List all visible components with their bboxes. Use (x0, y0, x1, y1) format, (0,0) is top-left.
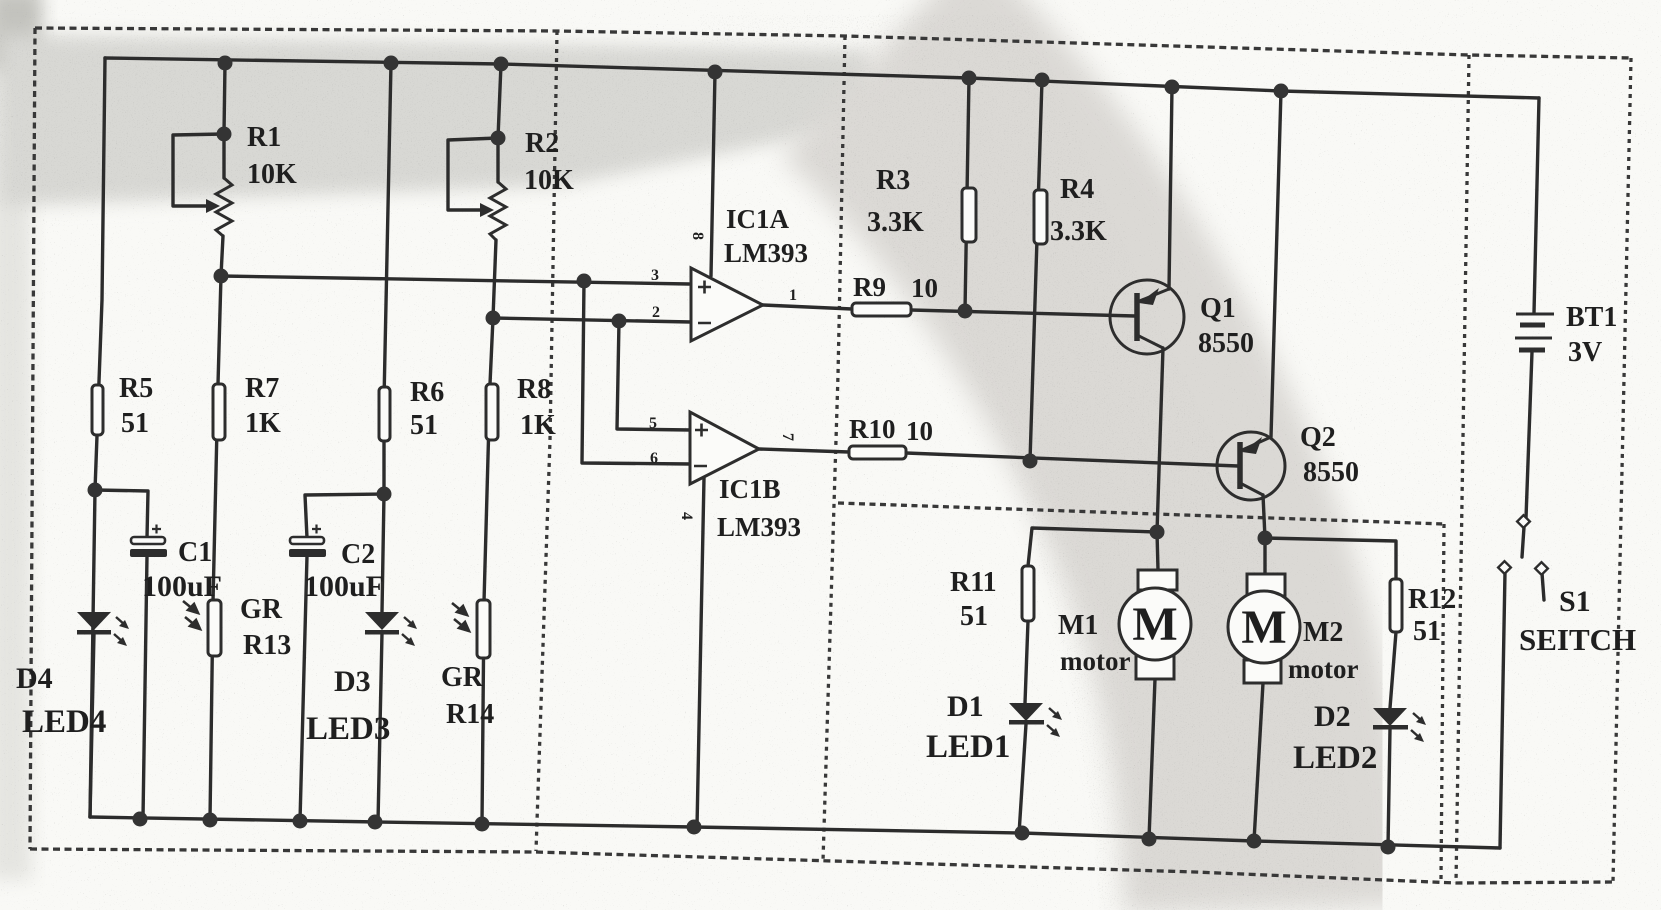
wire: R2 pot body top lead (496, 138, 499, 182)
wire: battery top lead (1534, 98, 1539, 313)
wire: R12 to D2 (1390, 632, 1396, 708)
wire: M1 top lead (1157, 532, 1158, 570)
outer border right (1613, 58, 1631, 882)
svg-text:R5: R5 (119, 373, 153, 404)
svg-text:10: 10 (911, 273, 938, 303)
svg-text:LM393: LM393 (724, 238, 808, 268)
wire: C1 branch from junction (95, 490, 148, 538)
svg-text:10K: 10K (247, 159, 297, 190)
section divider dashed (comparator / driver) (823, 36, 845, 861)
svg-text:LED2: LED2 (1293, 740, 1377, 776)
svg-text:3: 3 (651, 267, 659, 284)
resistor R9 (852, 303, 911, 316)
svg-text:51: 51 (121, 408, 149, 439)
photoresistor GR R14 (477, 600, 490, 658)
photoresistor R13 light arrows (183, 601, 200, 629)
resistor R3 (962, 188, 976, 242)
wire: R2 column from rail (498, 64, 501, 138)
wire: M2 top lead (1263, 538, 1266, 574)
motor M2 (1228, 574, 1300, 683)
LED D2 (1373, 708, 1426, 742)
resistor R4 (1034, 190, 1047, 244)
svg-text:R8: R8 (517, 374, 551, 405)
wire: pin2 to pin5 crosslink (617, 321, 691, 430)
svg-text:1: 1 (789, 287, 797, 304)
section divider dashed (driver / battery) (1456, 55, 1469, 883)
svg-text:C1: C1 (178, 537, 212, 568)
svg-text:R11: R11 (950, 567, 997, 598)
wire: R1 wiper loop (173, 134, 224, 206)
wire: R8/R14 column (482, 318, 493, 824)
svg-text:LED1: LED1 (926, 729, 1010, 765)
wire: R2 pot bottom lead (493, 240, 496, 318)
svg-text:R7: R7 (245, 373, 279, 404)
resistor R12 (1390, 579, 1402, 632)
svg-text:M: M (1132, 598, 1177, 651)
wire: R12 branch (1265, 538, 1396, 579)
svg-text:8550: 8550 (1303, 457, 1359, 488)
svg-text:SEITCH: SEITCH (1519, 622, 1636, 657)
svg-text:LED4: LED4 (22, 704, 106, 740)
svg-text:100uF: 100uF (304, 570, 384, 603)
wire: R6 column (382, 63, 391, 612)
op-amp IC1B (690, 412, 759, 484)
wire: R2 wiper loop (448, 138, 498, 210)
wire: R3 column (965, 78, 969, 311)
resistor R8 (486, 384, 498, 440)
svg-text:1K: 1K (245, 408, 281, 439)
svg-text:LM393: LM393 (717, 512, 801, 542)
svg-text:R3: R3 (876, 165, 910, 196)
svg-text:6: 6 (650, 450, 658, 467)
resistor R11 (1022, 566, 1034, 621)
wire: battery bottom lead to switch (1526, 352, 1532, 518)
outer border left (30, 28, 35, 849)
svg-text:Q1: Q1 (1200, 293, 1236, 324)
svg-text:R4: R4 (1060, 174, 1094, 205)
wire: switch unused throw stub (1542, 573, 1544, 600)
wire: D4 lower lead (90, 633, 94, 817)
wire: C2 branch from junction (305, 494, 384, 538)
svg-text:R12: R12 (1408, 584, 1456, 615)
wire: comparator input net (pin 2) (493, 318, 691, 322)
potentiometer R1 zigzag (216, 178, 232, 236)
svg-text:10: 10 (906, 416, 933, 446)
outer border top (35, 28, 1631, 58)
svg-text:7: 7 (779, 433, 796, 441)
svg-text:1K: 1K (520, 410, 556, 441)
transistor Q2 (1217, 432, 1285, 500)
wire: IC1A output to R9 (763, 305, 852, 309)
svg-text:8550: 8550 (1198, 328, 1254, 359)
resistor R7 (213, 384, 225, 440)
wire: D2 to ground rail (1388, 729, 1390, 847)
wire: comparator input net (pin 3) (221, 276, 689, 284)
wire: IC1B pin4 to ground rail (697, 478, 704, 827)
op-amp IC1A (691, 268, 763, 341)
resistor R6 (379, 387, 390, 441)
svg-text:D3: D3 (334, 665, 371, 698)
wire: top supply rail (105, 58, 1539, 98)
svg-text:M: M (1241, 601, 1286, 654)
pin numbers (649, 232, 797, 520)
section divider dashed (sensor / comparator) (536, 31, 557, 851)
svg-text:motor: motor (1288, 654, 1358, 684)
svg-text:S1: S1 (1559, 585, 1591, 618)
svg-text:2: 2 (652, 304, 660, 321)
svg-text:4: 4 (678, 512, 695, 520)
potentiometer R2 zigzag (490, 182, 506, 240)
capacitor C1 (130, 525, 167, 558)
wire: IC1B output to R10 (759, 449, 849, 452)
wire: M2 bottom lead (1254, 683, 1263, 841)
wire: D1 to ground rail (1019, 724, 1026, 834)
svg-text:D4: D4 (16, 662, 53, 695)
LED D3 (365, 612, 417, 646)
photoresistor R14 light arrows (452, 603, 469, 631)
svg-text:3V: 3V (1568, 337, 1602, 368)
svg-text:IC1B: IC1B (719, 474, 781, 504)
svg-text:M2: M2 (1303, 617, 1343, 648)
svg-text:51: 51 (960, 601, 988, 632)
wire: Q1 collector down (1157, 348, 1163, 532)
wire: left column (R5/D4 branch) (90, 58, 105, 817)
potentiometer R1 wiper arrowhead (206, 199, 220, 213)
svg-text:IC1A: IC1A (726, 204, 790, 234)
wire: R1 pot bottom lead (221, 236, 223, 276)
svg-text:R10: R10 (849, 414, 896, 444)
wire: C2 lower lead (300, 556, 307, 821)
wire: R11 branch (1028, 528, 1157, 566)
wire: switch to bottom rail (1500, 572, 1505, 848)
svg-text:8: 8 (689, 232, 706, 240)
diagonal gray smudge swath (878, 52, 1266, 910)
svg-text:Q2: Q2 (1300, 422, 1336, 453)
wire: bottom ground rail (90, 817, 1500, 848)
svg-text:51: 51 (1413, 616, 1441, 647)
wire: R7/R13 column (210, 276, 221, 820)
svg-text:R9: R9 (853, 272, 886, 302)
svg-text:M1: M1 (1058, 610, 1098, 641)
wire: M1 bottom lead (1149, 679, 1155, 839)
capacitor C2 (289, 525, 326, 558)
resistor R5 (92, 385, 103, 435)
motor M1 (1119, 570, 1191, 679)
wire: Q2 collector down (1263, 495, 1265, 538)
photoresistor GR R13 (208, 600, 221, 656)
svg-text:R13: R13 (243, 630, 291, 661)
resistor R10 (849, 446, 906, 459)
wire: Q2 emitter from rail (1271, 91, 1281, 437)
svg-text:D2: D2 (1314, 700, 1351, 733)
svg-text:R14: R14 (446, 699, 494, 730)
wire: Q1 emitter from rail (1169, 87, 1172, 289)
top gray scan band (0, 34, 880, 206)
svg-text:LED3: LED3 (306, 711, 390, 747)
wire: R1 column from rail (224, 63, 225, 134)
svg-text:51: 51 (410, 410, 438, 441)
motor box dashed top edge (838, 503, 1444, 524)
potentiometer R2 wiper arrowhead (480, 203, 494, 217)
wire: R10 to Q2 base (906, 453, 1238, 466)
switch S1 (1498, 515, 1548, 575)
wire: C1 lower lead (143, 556, 147, 818)
LED D1 (1009, 703, 1062, 737)
motor box dashed right edge (1441, 524, 1444, 879)
wire: R4 column (1030, 80, 1042, 461)
wire: pin3 to pin6 crosslink (582, 281, 691, 464)
wire: switch pole stub (1522, 527, 1524, 557)
battery BT1 (1515, 314, 1554, 350)
outer border bottom (30, 849, 1613, 883)
svg-text:10K: 10K (524, 165, 574, 196)
svg-text:R6: R6 (410, 377, 444, 408)
wire: R1 pot body top lead (222, 134, 225, 178)
svg-text:BT1: BT1 (1566, 302, 1617, 333)
wire: R9 to Q1 base (911, 310, 1135, 316)
svg-text:3.3K: 3.3K (867, 207, 924, 238)
transistor Q1 (1110, 280, 1184, 354)
svg-text:motor: motor (1060, 646, 1130, 676)
svg-text:5: 5 (649, 415, 657, 432)
svg-text:3.3K: 3.3K (1050, 216, 1107, 247)
wire: R11 to D1 (1025, 621, 1028, 703)
svg-text:R2: R2 (525, 128, 559, 159)
svg-text:GR: GR (441, 662, 484, 693)
svg-text:C2: C2 (341, 539, 375, 570)
svg-text:100uF: 100uF (142, 570, 222, 603)
svg-text:D1: D1 (947, 690, 984, 723)
svg-text:GR: GR (240, 594, 283, 625)
left edge scan shading (0, 0, 42, 880)
LED D4 (77, 612, 129, 646)
wire: IC1A pin8 supply (711, 72, 715, 276)
svg-text:R1: R1 (247, 122, 281, 153)
wire: D3 lower lead (378, 633, 382, 822)
